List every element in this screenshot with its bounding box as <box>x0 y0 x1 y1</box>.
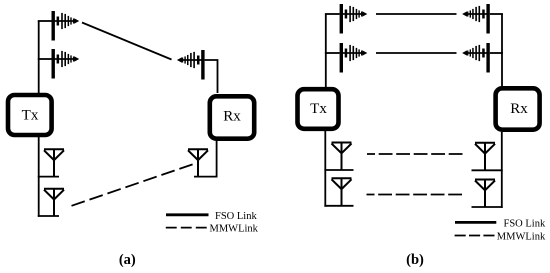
FSO link line (a) <box>82 23 172 60</box>
wire: stub of Rx MMW antenna 1 (b) <box>472 169 503 171</box>
FSO transceiver 2 of Tx (a) <box>52 49 80 79</box>
wire: Tx mast upper (b) <box>325 14 327 87</box>
MMW link dashed line 1 (b) <box>367 153 466 155</box>
FSO transceiver 1 of Tx (b) <box>340 4 368 34</box>
wire: Tx mast upper (a) <box>38 21 40 94</box>
wire: Rx mast upper (b) <box>501 14 503 86</box>
MMW antenna of Rx (a) <box>188 149 208 177</box>
FSO link line 2 (b) <box>376 52 457 54</box>
svg-text:FSO Link: FSO Link <box>215 211 257 222</box>
Rx box (a) <box>210 96 254 138</box>
MMW antenna 2 of Tx (b) <box>332 178 352 206</box>
FSO link line 1 (b) <box>376 13 457 15</box>
wire: stub of Tx MMW antenna 1 (b) <box>324 169 353 171</box>
svg-text:MMWLink: MMWLink <box>210 224 259 235</box>
wire: stub to FSO transceiver 2 (a) <box>38 58 52 60</box>
wire: stub of MMW antenna 2 (a) <box>38 215 59 217</box>
wire: stub of Rx FSO transceiver 2 (b) <box>490 52 503 54</box>
svg-text:MMWLink: MMWLink <box>497 231 546 242</box>
svg-text:(a): (a) <box>119 252 136 268</box>
svg-text:Rx: Rx <box>510 101 528 117</box>
MMW link dashed line (a) <box>72 164 194 206</box>
FSO transceiver 2 of Tx (b) <box>340 43 368 73</box>
legend MMW dashed line (a) <box>166 227 208 229</box>
MMW antenna 1 of Tx (a) <box>44 149 64 177</box>
svg-text:Rx: Rx <box>223 109 241 125</box>
wire: stub of Rx MMW antenna (a) <box>194 176 218 178</box>
FSO transceiver of Rx (a) <box>177 50 205 80</box>
FSO transceiver 1 of Tx (a) <box>52 11 80 41</box>
wire: stub of MMW antenna 1 (a) <box>38 176 59 178</box>
Tx box (a) <box>8 95 52 135</box>
legend FSO solid line (b) <box>455 221 496 224</box>
svg-text:(b): (b) <box>406 252 424 268</box>
Tx box (b) <box>298 89 339 129</box>
MMW link dashed line 2 (b) <box>367 194 466 196</box>
legend MMW dashed line (b) <box>455 235 495 237</box>
svg-text:Tx: Tx <box>22 107 39 123</box>
wire: stub to FSO transceiver 1 (b) <box>325 13 340 15</box>
wire: Tx mast lower (b) <box>324 131 326 207</box>
FSO transceiver 2 of Rx (b) <box>462 43 490 73</box>
wire: stub of Rx FSO transceiver 1 (b) <box>490 13 503 15</box>
MMW antenna 1 of Rx (b) <box>475 143 495 171</box>
FSO transceiver 1 of Rx (b) <box>462 4 490 34</box>
wire: Tx mast lower (a) <box>38 137 40 217</box>
MMW antenna 1 of Tx (b) <box>332 143 352 171</box>
svg-text:Tx: Tx <box>310 101 327 117</box>
svg-text:FSO Link: FSO Link <box>504 218 546 229</box>
wire: stub to FSO transceiver 2 (b) <box>325 52 340 54</box>
wire: stub of Tx MMW antenna 2 (b) <box>324 205 353 207</box>
wire: stub to FSO transceiver 1 (a) <box>38 20 52 22</box>
wire: Rx mast upper (a) <box>205 60 218 93</box>
legend FSO solid line (a) <box>166 213 209 216</box>
Rx box (b) <box>496 88 540 129</box>
wire: stub of Rx MMW antenna 2 (b) <box>472 206 503 208</box>
wire: Rx mast lower (a) <box>216 140 218 177</box>
wire: Rx mast lower (b) <box>501 132 503 208</box>
MMW antenna 2 of Rx (b) <box>475 180 495 208</box>
MMW antenna 2 of Tx (a) <box>44 189 64 217</box>
